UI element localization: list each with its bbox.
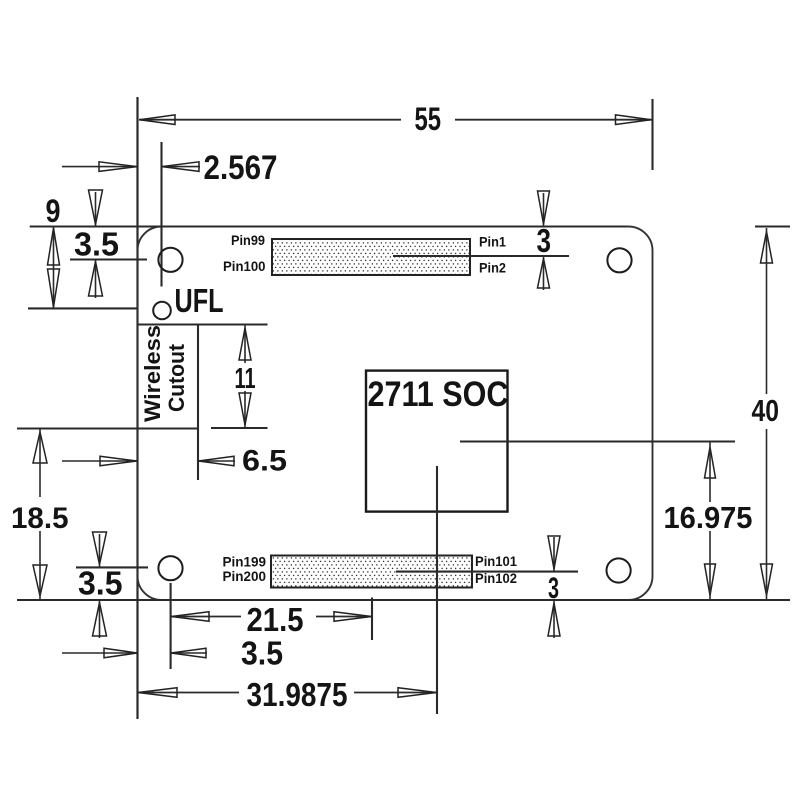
bottom board-to-board connector (hatched) <box>271 556 472 588</box>
2.567 extension line (UFL centre) <box>160 142 162 287</box>
dim 3.5 bottom right arrow <box>171 652 207 654</box>
mounting hole bottom-left <box>158 556 182 580</box>
dim 9 up arrow <box>53 227 55 309</box>
svg-text:2.567: 2.567 <box>204 149 278 187</box>
dim 55 line left part <box>139 119 401 121</box>
svg-text:Pin100: Pin100 <box>223 258 266 274</box>
svg-text:3.5: 3.5 <box>78 565 123 602</box>
svg-text:40: 40 <box>752 393 780 428</box>
dim 21.5 left arrow <box>172 612 210 622</box>
UFL connector circle <box>153 302 171 320</box>
dim 3 bottom up arrow <box>553 601 555 639</box>
dim 18.5 down arrow <box>33 565 47 596</box>
SOC centre horizontal line (16.975 ref) <box>460 440 735 442</box>
mounting hole bottom-right <box>607 558 631 582</box>
svg-text:Pin2: Pin2 <box>479 260 506 276</box>
mounting hole top-right <box>607 248 631 272</box>
dim 40 down arrow <box>761 564 773 596</box>
SOC centre vertical line (31.9875 ref) <box>436 466 438 714</box>
top board-to-board connector (hatched) <box>272 239 470 275</box>
dim 31.9875 line segments <box>138 692 240 694</box>
svg-text:21.5: 21.5 <box>247 601 304 638</box>
svg-text:18.5: 18.5 <box>11 502 69 535</box>
svg-text:Wireless: Wireless <box>140 325 165 422</box>
dim 3 top down arrow <box>543 193 545 227</box>
svg-text:3.5: 3.5 <box>241 635 283 672</box>
dim 9 down arrow <box>48 269 60 307</box>
dim 3 bottom down arrow <box>553 537 555 572</box>
UFL centre ref line (9 dim) <box>28 307 138 309</box>
bottom-left hole centre line <box>76 566 148 568</box>
dim 40 line segments <box>766 228 768 394</box>
dim 18.5 line segments <box>39 429 41 497</box>
svg-text:Pin99: Pin99 <box>231 232 265 248</box>
dim 55 left arrow <box>140 115 176 125</box>
svg-text:UFL: UFL <box>175 282 224 319</box>
top-left hole centre line <box>70 258 147 260</box>
11 dim bottom ref line <box>211 427 268 429</box>
dim 2.567 left arrow <box>99 162 137 172</box>
svg-text:3: 3 <box>548 572 559 605</box>
board left edge + extension line <box>136 97 138 719</box>
svg-text:Pin200: Pin200 <box>223 568 267 584</box>
dim 6.5 right arrow <box>198 460 235 462</box>
svg-text:3.5: 3.5 <box>74 226 119 263</box>
board bottom edge long line <box>17 599 790 601</box>
dim 18.5 up arrow <box>33 432 47 463</box>
dim 31.9875 left arrow <box>138 688 177 698</box>
board outline rounded rect <box>138 227 653 601</box>
dim 21.5 right arrow <box>334 612 372 622</box>
dim 16.975 line segments <box>709 442 711 502</box>
dim 3.5 top-left down arrow <box>95 192 97 227</box>
dim 3.5 bottom-left up arrow <box>99 601 101 639</box>
mounting hole top-left <box>158 248 182 272</box>
dim 3 top up arrow <box>543 256 545 290</box>
dim 11 up arrow <box>244 326 246 364</box>
svg-text:55: 55 <box>415 101 442 137</box>
21.5 right tick <box>371 598 373 641</box>
svg-text:2711 SOC: 2711 SOC <box>368 375 509 414</box>
wireless cutout right edge <box>197 325 199 481</box>
svg-text:9: 9 <box>46 193 61 229</box>
svg-text:Pin102: Pin102 <box>475 570 517 586</box>
wireless cutout top edge <box>138 323 268 325</box>
dim 3.5 bottom-left down arrow <box>99 534 101 567</box>
dim 21.5 line segments <box>171 616 241 618</box>
dim 6.5 tail <box>62 460 138 462</box>
dim 3.5 top-left up arrow <box>95 260 97 299</box>
svg-text:6.5: 6.5 <box>242 445 287 478</box>
svg-text:11: 11 <box>235 363 256 395</box>
dim 40 up arrow <box>761 232 773 264</box>
bottom connector centre line <box>396 571 578 573</box>
top connector centre line <box>393 255 569 257</box>
dim 16.975 down arrow <box>705 564 716 596</box>
dim 3.5 bottom left arrow <box>104 648 137 658</box>
dim 6.5 left arrow <box>100 456 137 466</box>
55 dim right extension line <box>651 99 653 170</box>
2711 SOC rectangle <box>366 371 508 512</box>
bottom-left hole extension line down <box>170 583 172 669</box>
40 dim top tick <box>755 225 790 227</box>
svg-text:31.9875: 31.9875 <box>247 676 348 713</box>
dim 3.5 bottom tail <box>62 652 138 654</box>
board top edge with left extension <box>30 225 626 227</box>
dim 16.975 up arrow <box>705 447 716 478</box>
dim 55 line right part <box>455 119 652 121</box>
dim 31.9875 right arrow <box>398 688 437 698</box>
svg-text:3: 3 <box>537 222 552 259</box>
dim 11 down arrow <box>244 391 246 427</box>
svg-text:16.975: 16.975 <box>664 500 753 535</box>
dim 2.567 tail <box>62 166 138 168</box>
svg-text:Pin1: Pin1 <box>479 234 506 250</box>
svg-text:Pin101: Pin101 <box>475 553 517 569</box>
dim 55 right arrow <box>616 115 652 125</box>
svg-text:Cutout: Cutout <box>164 343 189 412</box>
dim 2.567 right arrow <box>162 166 201 168</box>
wireless cutout bottom edge / 18.5 ref line <box>17 427 198 429</box>
